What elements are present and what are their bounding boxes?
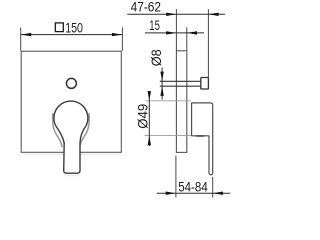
dim Ø49: top extension line: [146, 100, 192, 102]
ext line x176 above plate: [175, 9, 177, 51]
lever handle (knob + shaft, front view): [54, 101, 88, 173]
dim 150: dimension line: [21, 34, 123, 36]
dim 47-62: dimension line: [127, 13, 225, 15]
dim Ø49: up arrow: [148, 136, 151, 146]
dim 150: square symbol: [55, 23, 63, 32]
wall plate (front view, square): [21, 51, 121, 152]
dim Ø8: vertical line: [161, 68, 163, 100]
ext line x208 (knob front face): [207, 9, 209, 77]
dim 150: arrow right: [112, 33, 122, 36]
svg-text:Ø8: Ø8: [148, 49, 164, 66]
dim Ø49: vertical line: [148, 91, 150, 146]
shadow under plate: [24, 153, 120, 155]
wall plate (side view): [176, 51, 186, 153]
ext line x187 above plate: [186, 27, 188, 51]
dim 15: arrow left: [166, 31, 176, 34]
dim 150: extension line left: [20, 28, 22, 51]
handle hub + lever (side view): [192, 103, 213, 175]
dim 150: arrow left: [21, 33, 31, 36]
pin bottom line (Ø8 lower): [160, 85, 201, 87]
dim Ø49: down arrow: [148, 91, 151, 101]
dark segment on hub bottom edge: [196, 135, 205, 137]
svg-text:54-84: 54-84: [178, 178, 208, 194]
dim 54-84: extension line right: [212, 177, 214, 198]
svg-text:15: 15: [149, 17, 160, 33]
dim 15: arrow right: [187, 31, 197, 34]
dim Ø8: up arrow: [160, 86, 163, 96]
dim 47-62: arrow at plate face: [166, 13, 176, 16]
screw hole circle: [66, 78, 76, 88]
shadow under lever shaft: [65, 175, 79, 177]
svg-text:Ø49: Ø49: [135, 104, 151, 129]
dim Ø8: down arrow: [160, 72, 163, 82]
dim 54-84: dimension line: [157, 192, 230, 194]
pin knob: [201, 78, 209, 90]
grey shadow arc right of knob: [80, 113, 90, 147]
svg-text:150: 150: [65, 19, 83, 35]
svg-text:47-62: 47-62: [131, 0, 162, 15]
dim 15: dimension line: [145, 32, 204, 34]
dim Ø49: bottom extension line: [145, 135, 192, 137]
dim 54-84: arrow right: [213, 192, 223, 195]
dim 54-84: extension line left: [175, 156, 177, 198]
dim 54-84: arrow left: [166, 192, 176, 195]
grey shadow arc left of knob: [53, 113, 63, 147]
dim 150: extension line right: [121, 28, 123, 51]
dim 47-62: arrow at knob face: [209, 13, 219, 16]
pin top line (Ø8 upper): [160, 80, 201, 82]
